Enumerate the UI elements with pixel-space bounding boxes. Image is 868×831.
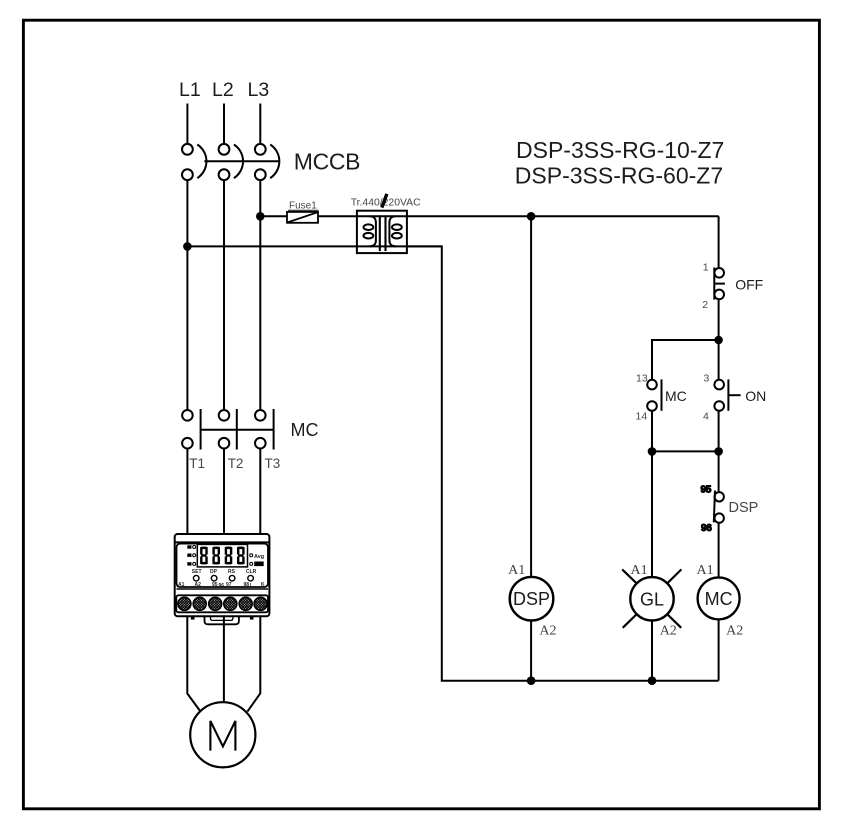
- node T1 label: [189, 456, 205, 471]
- wire node C to GL lamp: [651, 451, 653, 577]
- transformer TR: [357, 211, 407, 253]
- motor M1: [190, 702, 255, 767]
- title text line 2: [515, 163, 723, 189]
- junction node C left: [648, 447, 657, 456]
- contactor MC pole 2: [219, 409, 237, 450]
- node L1 label: [179, 79, 201, 101]
- circuit breaker MCCB pole 2: [219, 144, 243, 180]
- junction node B below OFF: [714, 336, 723, 345]
- svg-text:4: 4: [703, 411, 709, 423]
- junction bottom rail at DSP: [527, 676, 536, 685]
- svg-text:DSP: DSP: [513, 589, 550, 609]
- wire MC aux to node C: [651, 411, 653, 452]
- U1 left LED indicators: [187, 545, 195, 565]
- junction on L3 to fuse: [256, 212, 265, 221]
- svg-text:A1: A1: [178, 582, 185, 588]
- svg-text:97: 97: [226, 582, 232, 588]
- svg-text:A1: A1: [696, 563, 713, 578]
- svg-text:96: 96: [219, 583, 225, 589]
- relay contact DSP pin 96 label: [701, 523, 712, 534]
- wire T1 MC to relay: [186, 449, 188, 535]
- svg-text:SET: SET: [192, 569, 202, 575]
- junction node control top to DSP coil branch: [527, 212, 536, 221]
- U1 display digit 3: [225, 547, 233, 565]
- U1 terminal screw 4: [224, 597, 237, 610]
- fuse F1 label Fuse1: [288, 200, 319, 211]
- svg-text:K: K: [261, 582, 265, 588]
- svg-text:98: 98: [244, 582, 250, 588]
- svg-text:T2: T2: [228, 456, 244, 471]
- lamp GL: [622, 569, 681, 627]
- svg-text:MC: MC: [705, 589, 733, 609]
- title text line 1: [516, 137, 724, 163]
- wire L2 incoming: [223, 104, 225, 144]
- MCCB linkage bar: [204, 160, 279, 162]
- pushbutton ON pin 3 label: [704, 373, 710, 385]
- wire node C to DSP contact: [718, 451, 720, 492]
- U1 terminal screw 2: [193, 597, 206, 610]
- svg-text:95: 95: [212, 582, 218, 588]
- svg-text:RS: RS: [228, 569, 236, 575]
- svg-text:14: 14: [636, 411, 648, 423]
- contactor MC pole 3: [255, 409, 274, 450]
- svg-text:L1: L1: [179, 79, 201, 101]
- wire T2 MC to relay: [223, 449, 225, 535]
- wire fuse through transformer to control rail top: [318, 215, 719, 217]
- wire L1 to transformer primary bottom: [187, 245, 441, 247]
- svg-text:A1: A1: [630, 563, 647, 578]
- coil MC: [698, 577, 740, 619]
- OFF label: [735, 277, 763, 293]
- svg-text:MC: MC: [665, 388, 687, 404]
- U1 buttons row: [192, 569, 257, 581]
- U1 right LED indicators Amp Sec: [250, 554, 264, 566]
- node L2 label: [212, 79, 234, 101]
- pushbutton ON pin 4 label: [703, 411, 709, 423]
- wire L3 MCCB to MC: [259, 180, 261, 409]
- svg-text:MCCB: MCCB: [294, 149, 360, 175]
- MCCB label: [294, 149, 360, 175]
- svg-text:A2: A2: [195, 582, 202, 588]
- junction on L1 to transformer: [183, 242, 192, 251]
- pushbutton OFF pin 2 label: [702, 299, 708, 311]
- wire L1 MCCB to MC: [186, 180, 188, 409]
- aux contact MC (NO): [647, 379, 661, 410]
- svg-text:A2: A2: [726, 624, 743, 639]
- MC linkage bar: [201, 429, 274, 431]
- svg-text:3: 3: [704, 373, 710, 385]
- wire U1 to motor right: [247, 616, 260, 711]
- wire U1 to motor middle: [223, 616, 225, 702]
- pushbutton OFF pin 1 label: [703, 261, 709, 273]
- svg-text:OFF: OFF: [735, 277, 763, 293]
- U1 display digit 4: [237, 547, 245, 565]
- U1 display digit 2: [212, 547, 220, 565]
- wire GL to bottom rail: [651, 621, 653, 681]
- wire bottom rail: [531, 680, 719, 682]
- svg-text:Avg: Avg: [254, 554, 264, 560]
- wire control rail top corner down to OFF: [718, 216, 720, 268]
- protection relay U1 DSP body: [175, 534, 270, 616]
- node T3 label: [265, 456, 281, 471]
- U1 terminal screw 3: [209, 597, 222, 610]
- wire T3 MC to relay: [259, 449, 261, 535]
- coil MC A1 label: [696, 563, 713, 578]
- svg-text:L3: L3: [248, 79, 270, 101]
- circuit breaker MCCB pole 3: [255, 144, 279, 180]
- pushbutton OFF (NC): [714, 267, 725, 299]
- svg-text:2: 2: [702, 299, 708, 311]
- junction bottom rail at GL: [648, 676, 657, 685]
- wire L2 MCCB to MC: [223, 180, 225, 409]
- wire L1 incoming: [186, 104, 188, 144]
- svg-text:ON: ON: [745, 388, 766, 404]
- svg-text:MC: MC: [291, 420, 319, 440]
- node L3 label: [248, 79, 270, 101]
- svg-text:DSP-3SS-RG-10-Z7: DSP-3SS-RG-10-Z7: [516, 137, 724, 163]
- svg-text:CLR: CLR: [246, 569, 257, 575]
- wire node B to MC aux branch: [652, 340, 719, 380]
- svg-text:1: 1: [703, 261, 709, 273]
- wire L3 to fuse: [260, 215, 287, 217]
- svg-text:GL: GL: [640, 589, 664, 609]
- svg-text:DSP-3SS-RG-60-Z7: DSP-3SS-RG-60-Z7: [515, 163, 723, 189]
- fuse F1: [287, 212, 318, 223]
- circuit breaker MCCB pole 1: [182, 144, 206, 180]
- junction node C right: [714, 447, 723, 456]
- svg-text:T3: T3: [265, 456, 281, 471]
- svg-text:L: L: [250, 583, 253, 589]
- svg-text:A1: A1: [508, 563, 525, 578]
- wire ON to node C: [718, 411, 720, 452]
- wire node B to ON: [718, 340, 720, 380]
- relay contact DSP (NC): [714, 491, 724, 523]
- svg-text:A2: A2: [660, 624, 677, 639]
- MC label: [291, 420, 319, 440]
- wire node C crossbar: [652, 450, 719, 452]
- svg-text:T1: T1: [189, 456, 205, 471]
- svg-text:A2: A2: [539, 624, 556, 639]
- wire DSP contact to MC coil: [718, 522, 720, 577]
- svg-text:95: 95: [701, 485, 712, 496]
- DSP contact label: [729, 500, 759, 516]
- svg-text:L2: L2: [212, 79, 234, 101]
- coil DSP: [510, 577, 554, 621]
- svg-text:13: 13: [636, 373, 648, 385]
- U1 terminal screw 6: [254, 597, 267, 610]
- U1 DIN clip: [191, 616, 254, 624]
- coil DSP A1 label: [508, 563, 525, 578]
- U1 display digit 1: [200, 547, 208, 565]
- wire MC coil to bottom rail: [718, 619, 720, 680]
- lamp GL A1 label: [630, 563, 647, 578]
- U1 display window: [197, 544, 247, 567]
- U1 terminal labels row: [178, 582, 265, 589]
- pushbutton ON (NO): [714, 379, 740, 410]
- aux contact MC pin 14 label: [636, 411, 648, 423]
- coil MC A2 label: [726, 624, 743, 639]
- contactor MC pole 1: [182, 409, 201, 450]
- node T2 label: [228, 456, 244, 471]
- lamp GL A2 label: [660, 624, 677, 639]
- ON label: [745, 388, 766, 404]
- wire OFF to node B: [718, 299, 720, 340]
- wire DSP branch down: [530, 216, 532, 577]
- U1 terminal screw 5: [239, 597, 252, 610]
- wire L3 incoming: [259, 104, 261, 144]
- svg-text:DP: DP: [210, 569, 218, 575]
- svg-text:DSP: DSP: [729, 500, 759, 516]
- U1 terminal screw 1: [178, 597, 191, 610]
- MC aux label: [665, 388, 687, 404]
- wire U1 to motor left: [187, 616, 200, 711]
- relay contact DSP pin 95 label: [701, 485, 712, 496]
- coil DSP A2 label: [539, 624, 556, 639]
- svg-text:96: 96: [701, 523, 712, 534]
- transformer TR label Tr.440/220VAC: [351, 194, 421, 209]
- aux contact MC pin 13 label: [636, 373, 648, 385]
- wire DSP coil to bottom rail: [530, 621, 532, 681]
- wire transformer secondary bottom down: [407, 246, 531, 680]
